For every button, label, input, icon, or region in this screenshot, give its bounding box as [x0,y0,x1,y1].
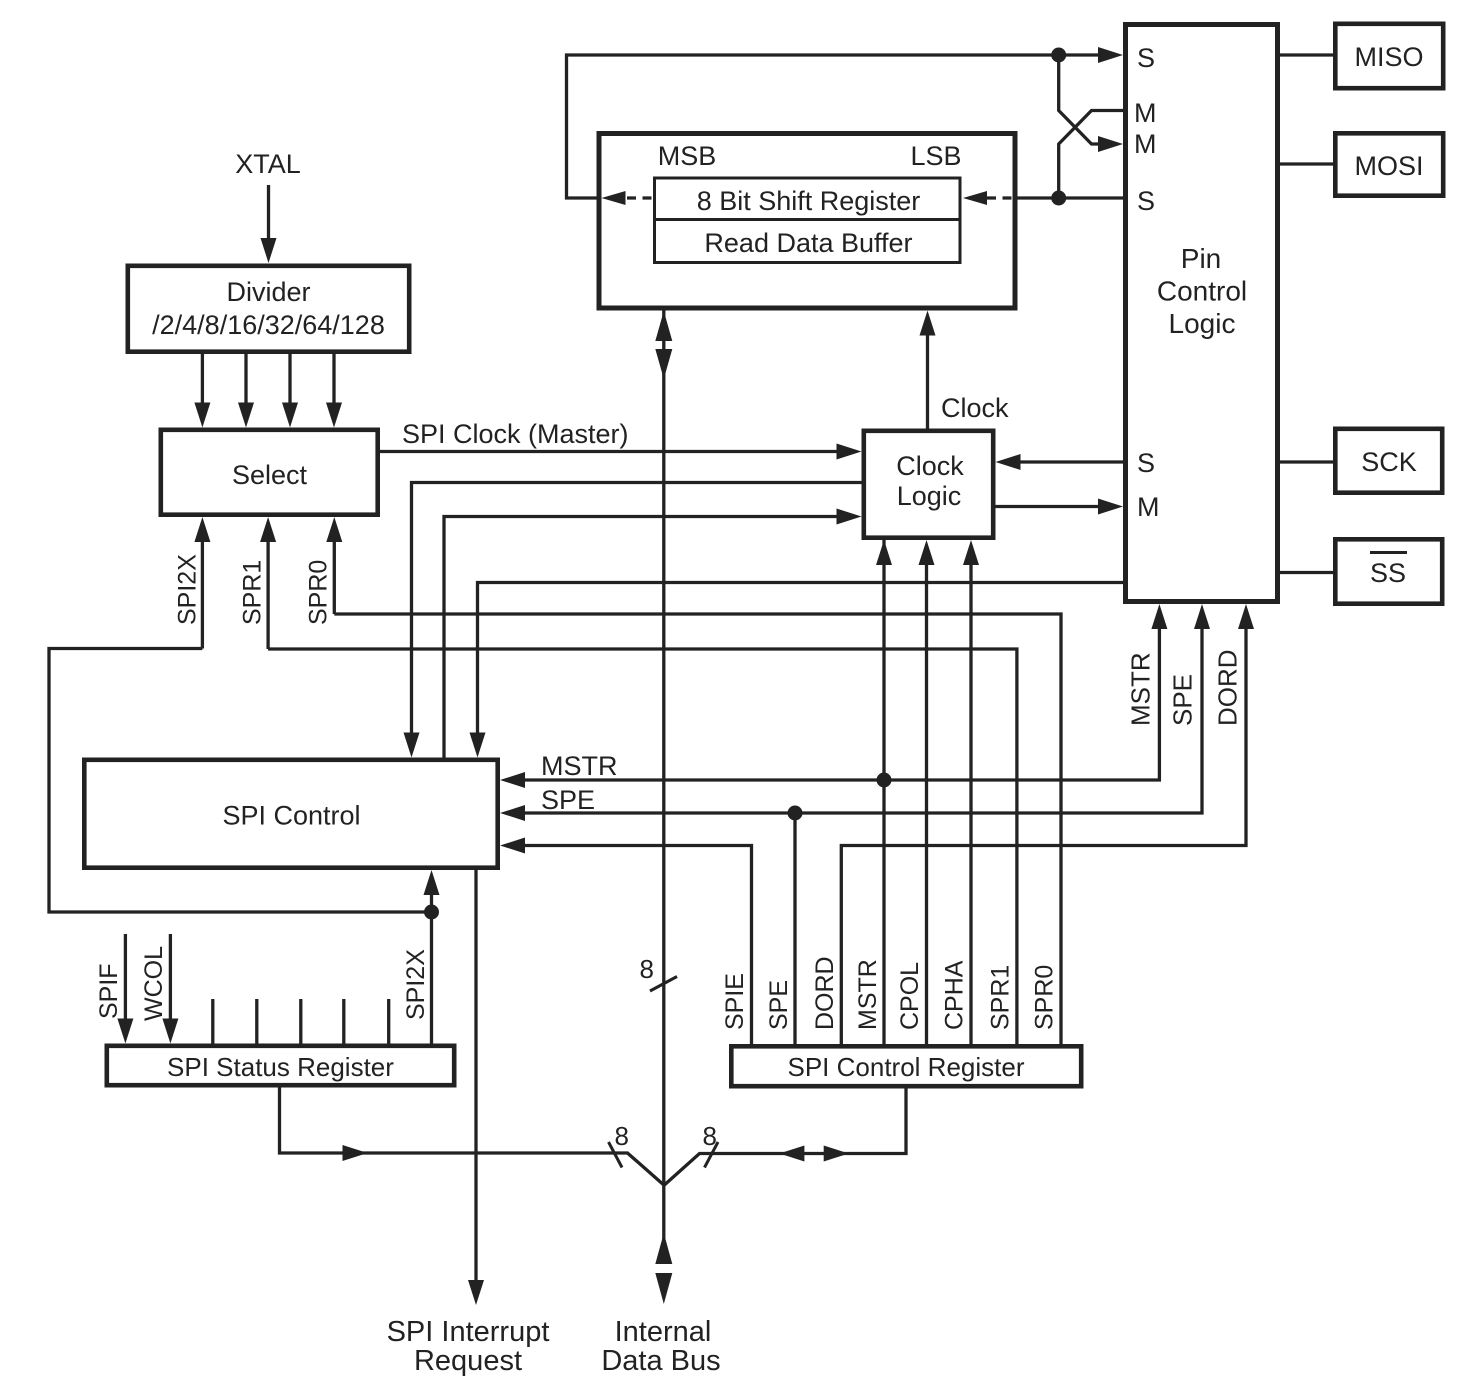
block 8 Bit Shift Register / Read Data Buffer [653,178,962,263]
junction dot MOSI net [1051,191,1066,206]
svg-text:8 Bit Shift Register: 8 Bit Shift Register [697,186,921,216]
svg-text:MSB: MSB [658,141,717,171]
svg-text:SPIE: SPIE [721,973,749,1030]
wire SPE net: register bit to SPI Control and Pin Control Logic [500,604,1210,1044]
label SPI2X (status register bit) [402,949,430,1020]
svg-text:Select: Select [232,460,308,490]
svg-text:Logic: Logic [1169,308,1236,339]
label SPR0 (register bit) [1031,965,1059,1030]
arrows bidirectional internal data bus [655,1233,672,1304]
pad SCK [1335,429,1442,493]
label LSB [910,141,961,171]
svg-text:WCOL: WCOL [140,946,168,1021]
svg-text:S: S [1137,43,1155,73]
wire SPR0 bit to Select [334,614,1061,1044]
pin M (SCK master) [1137,492,1160,522]
wire crossover S to M (lower) [1059,55,1123,152]
block SPI Control [84,760,497,868]
wire internal data bus vertical [662,311,665,1265]
label Clock (net) [941,393,1009,423]
label SPR1 (select input) [239,560,267,625]
wire control register to data bus [664,1089,906,1186]
label DORD (Pin Control input) [1213,649,1243,726]
svg-text:CPOL: CPOL [896,962,924,1030]
svg-text:SS: SS [1370,558,1406,588]
pin S (SCK slave) [1137,448,1155,478]
svg-text:Internal: Internal [615,1316,712,1348]
svg-text:SPR0: SPR0 [1031,965,1059,1030]
junction dot MISO net at top [1051,48,1066,63]
arrow LSB shift in (dashed) [963,191,1014,205]
junction dot MSTR net [877,773,892,788]
block Pin Control Logic [1126,25,1278,602]
wire SPI2X bit to SPI Control and Select [49,649,440,1044]
wire DORD bit to Pin Control Logic [841,604,1254,1044]
wire Clock Logic clock to shift register [920,311,936,429]
wire Divider to Select tap 4 [326,354,342,428]
block Divider /2/4/8/16/32/64/128 [128,266,409,352]
svg-text:Clock: Clock [896,451,964,481]
block SPI Status Register [107,1046,454,1085]
ticks unused status register bits [213,999,389,1044]
label SPI2X (select input) [174,554,202,625]
pin S (MOSI slave in) [1137,186,1155,216]
svg-text:MSTR: MSTR [541,751,618,781]
svg-text:MISO: MISO [1354,42,1423,72]
svg-text:M: M [1134,98,1157,128]
svg-text:SPI Control Register: SPI Control Register [788,1052,1025,1082]
pin M (MOSI out) [1134,98,1157,128]
label SPE (Pin Control input) [1168,674,1198,726]
svg-text:8: 8 [640,954,654,984]
svg-text:SPI2X: SPI2X [402,949,430,1020]
pin M (MOSI in) [1134,129,1157,159]
svg-text:M: M [1134,129,1157,159]
svg-text:SPR1: SPR1 [239,560,267,625]
wire Divider to Select tap 3 [282,354,298,428]
svg-text:SPE: SPE [765,980,793,1030]
wire Divider to Select tap 1 [194,354,210,428]
svg-text:Logic: Logic [897,481,962,511]
svg-text:SPE: SPE [1168,674,1198,726]
block Select (clock rate select mux) [161,430,378,515]
svg-text:8: 8 [615,1121,629,1151]
wire crossover M to M (upper) [1059,111,1123,199]
wire SPR1 bit to Select [268,649,1017,1044]
wire SCK S pin to Clock Logic [996,454,1124,470]
wire CPHA bit to Clock Logic [963,540,979,1044]
svg-text:SPI Control: SPI Control [222,801,360,831]
svg-text:SPI Clock (Master): SPI Clock (Master) [402,419,629,449]
bus width 8 slash (shift register) [640,954,677,991]
svg-text:Control: Control [1157,276,1247,307]
wire Pin Control Logic to MOSI [1280,162,1333,165]
svg-text:SPI2X: SPI2X [174,554,202,625]
svg-text:DORD: DORD [811,956,839,1030]
svg-text:CPHA: CPHA [941,960,969,1030]
svg-text:Request: Request [414,1345,522,1377]
svg-text:LSB: LSB [910,141,961,171]
block 8-bit Shift Register container [599,134,1015,309]
bus width 8 slash (status register) [609,1121,630,1168]
svg-text:Pin: Pin [1181,243,1221,274]
block SPI Control Register [731,1046,1081,1086]
junction dot SPI2X net [424,905,439,920]
label Internal Data Bus [601,1316,720,1377]
svg-text:SCK: SCK [1361,447,1417,477]
pad MOSI [1335,133,1443,195]
label MSB [658,141,717,171]
wire SPR0 into Select [326,517,342,614]
wire shift register MSB feedback to S pin [567,47,1124,198]
svg-text:SPIF: SPIF [95,963,123,1019]
svg-text:SPI Status Register: SPI Status Register [167,1052,394,1082]
wire Clock Logic to SCK M pin [996,499,1124,515]
label XTAL (clock input net) [235,149,301,179]
wire SPR1 into Select [260,517,276,649]
wire SPI Control to Clock Logic (enable) [444,509,862,758]
svg-text:Divider: Divider [226,277,310,307]
svg-text:Data Bus: Data Bus [601,1345,720,1377]
label MSTR (SPI Control input) [541,751,618,781]
svg-text:SPR1: SPR1 [987,965,1015,1030]
wire SPI Clock (Master) from Select to Clock Logic [380,444,862,460]
label SPI Interrupt Request [387,1316,550,1377]
wire CPOL bit to Clock Logic [919,540,935,1044]
wire Pin Control Logic to SS [1280,571,1333,574]
label SPR1 (register bit) [987,965,1015,1030]
svg-text:S: S [1137,186,1155,216]
svg-text:Clock: Clock [941,393,1009,423]
wire SPI2X into Select [194,517,210,649]
block Clock Logic [864,431,993,538]
label CPHA (register bit) [941,960,969,1030]
wire XTAL to Divider [261,185,277,263]
pad MISO [1335,24,1443,88]
label SPIE (register bit) [721,973,749,1030]
svg-text:SPR0: SPR0 [305,560,333,625]
label DORD (register bit) [811,956,839,1030]
wire status register to data bus [280,1088,664,1186]
wire Clock Logic to SPI Control (status) [404,483,862,758]
svg-text:M: M [1137,492,1160,522]
wire SPIE bit to SPI Control [500,838,752,1045]
pad SS (active low) [1335,539,1442,603]
bus width 8 slash (control register) [703,1121,718,1168]
wire WCOL into status register [162,934,178,1044]
junction dot SPE net [788,806,803,821]
label MSTR (register bit) [854,959,882,1030]
label SPI Clock (Master) [402,419,629,449]
wire S pin to shift register LSB [1014,196,1123,199]
label CPOL (register bit) [896,962,924,1030]
arrow MSB shift out (dashed) [602,191,654,205]
label SPIF (status flag) [95,963,123,1019]
arrows bidirectional bus to shift register [655,311,672,379]
label SPR0 (select input) [305,560,333,625]
svg-text:XTAL: XTAL [235,149,301,179]
wire MSTR net: register bit to SPI Control and Pin Control Logic [500,540,1167,1044]
svg-text:MSTR: MSTR [854,959,882,1030]
label SPE (SPI Control input) [541,785,595,815]
svg-text:MSTR: MSTR [1126,652,1156,726]
label SPE (register bit) [765,980,793,1030]
svg-text:8: 8 [703,1121,717,1151]
svg-text:SPI Interrupt: SPI Interrupt [387,1316,550,1348]
wire SS sense from Pin Control Logic to SPI Control [470,583,1124,758]
wire Pin Control Logic to MISO [1280,53,1333,56]
svg-text:SPE: SPE [541,785,595,815]
label WCOL (status flag) [140,946,168,1021]
pin S (MISO internal, top) [1137,43,1155,73]
svg-text:DORD: DORD [1213,649,1243,726]
svg-text:Read Data Buffer: Read Data Buffer [704,228,912,258]
svg-text:MOSI: MOSI [1354,151,1423,181]
wire Divider to Select tap 2 [238,354,254,428]
label MSTR (Pin Control input) [1126,652,1156,726]
svg-text:S: S [1137,448,1155,478]
wire Pin Control Logic to SCK [1280,460,1333,463]
svg-text:/2/4/8/16/32/64/128: /2/4/8/16/32/64/128 [152,310,385,340]
wire SPIF into status register [117,934,133,1044]
wire SPI Control to SPI Interrupt Request [468,870,484,1305]
